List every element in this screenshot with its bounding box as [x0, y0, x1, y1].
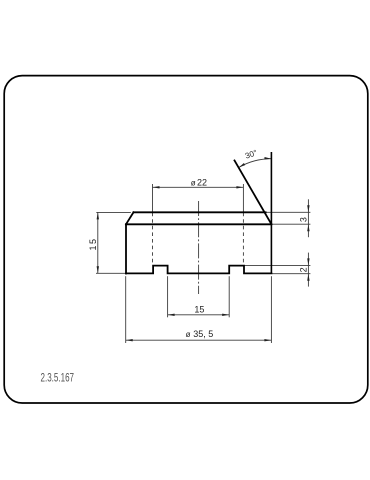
svg-text:22: 22	[197, 177, 207, 187]
svg-text:ø: ø	[191, 178, 196, 187]
svg-text:2.3.5.167: 2.3.5.167	[41, 371, 75, 385]
svg-text:15: 15	[194, 305, 204, 315]
svg-text:35, 5: 35, 5	[193, 329, 213, 339]
svg-text:2: 2	[298, 267, 308, 272]
svg-text:ø: ø	[186, 330, 191, 339]
svg-text:3: 3	[298, 217, 308, 222]
svg-text:15: 15	[88, 237, 98, 250]
